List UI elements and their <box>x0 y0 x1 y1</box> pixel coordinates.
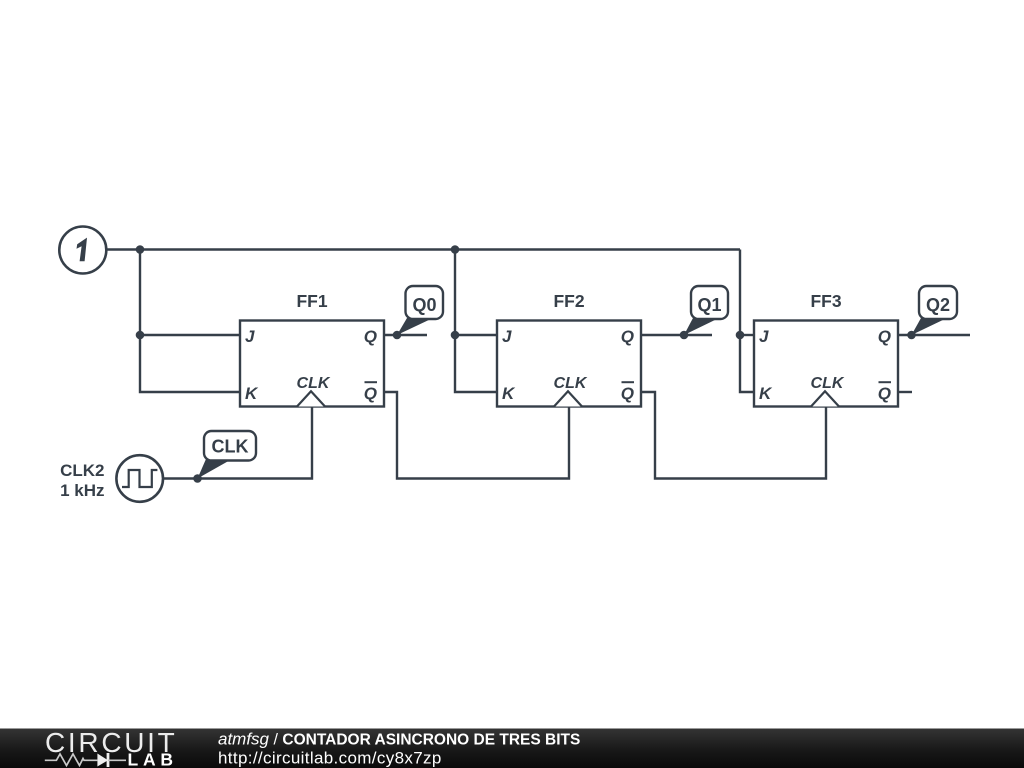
wire: FF3 J wire <box>740 334 754 336</box>
junction: CLK flag attach <box>193 474 202 483</box>
svg-text:K: K <box>502 384 516 403</box>
node flag Q0 <box>397 286 443 335</box>
wire: FF2 Qbar to FF3 CLK <box>641 392 826 479</box>
wire: FF2 feed vertical and K wire <box>455 250 497 393</box>
svg-text:CLK: CLK <box>212 437 249 457</box>
svg-text:J: J <box>502 327 512 346</box>
svg-text:Q: Q <box>878 384 891 403</box>
FF3 clock edge triangle <box>811 391 839 406</box>
svg-text:Q1: Q1 <box>697 295 721 315</box>
svg-text:Q: Q <box>878 327 891 346</box>
wire: FF1 Qbar to FF2 CLK <box>384 392 569 479</box>
node flag Q1 <box>684 286 728 335</box>
svg-text:LAB: LAB <box>128 750 178 768</box>
junction: top rail to FF2 feed <box>451 245 460 254</box>
svg-text:FF2: FF2 <box>553 291 584 311</box>
wire: FF3 Q output <box>898 334 970 336</box>
svg-text:K: K <box>759 384 773 403</box>
JK flip-flop FF2 <box>497 291 641 407</box>
junction: Q1 flag attach <box>680 331 689 340</box>
wire: top rail from V1 to FF3 feed <box>106 248 740 250</box>
svg-text:CLK2: CLK2 <box>60 461 104 480</box>
svg-text:Q: Q <box>364 384 377 403</box>
JK flip-flop FF1 <box>240 291 384 407</box>
JK flip-flop FF3 <box>754 291 898 407</box>
wire: FF3 feed vertical and K wire <box>740 250 754 393</box>
junction: Q0 flag attach <box>393 331 402 340</box>
svg-text:CLK: CLK <box>554 375 588 392</box>
svg-text:FF3: FF3 <box>810 291 841 311</box>
node flag CLK <box>198 431 257 479</box>
footer bar <box>0 729 1024 768</box>
svg-text:CLK: CLK <box>297 375 331 392</box>
wire: FF2 J wire <box>455 334 497 336</box>
junction: Q2 flag attach <box>907 331 916 340</box>
svg-text:K: K <box>245 384 259 403</box>
wire: CLK2 source to FF1 CLK <box>163 407 312 479</box>
junction: top rail to FF1 feed <box>136 245 145 254</box>
svg-text:1 kHz: 1 kHz <box>60 481 104 500</box>
svg-text:FF1: FF1 <box>296 291 327 311</box>
clock source CLK2 <box>60 455 163 502</box>
junction: FF2 J pin <box>451 331 460 340</box>
svg-text:Q0: Q0 <box>412 295 436 315</box>
wire: FF1 feed vertical and K wire <box>140 250 240 393</box>
svg-text:http://circuitlab.com/cy8x7zp: http://circuitlab.com/cy8x7zp <box>218 749 442 768</box>
svg-text:CLK: CLK <box>811 375 845 392</box>
svg-text:J: J <box>759 327 769 346</box>
wire: FF1 Q output <box>384 334 427 336</box>
node flag Q2 <box>912 286 958 335</box>
svg-text:Q: Q <box>364 327 377 346</box>
wire: FF1 J wire <box>140 334 240 336</box>
junction: FF1 J pin <box>136 331 145 340</box>
svg-text:Q: Q <box>621 327 634 346</box>
FF1 clock edge triangle <box>297 391 325 406</box>
CLK2 square wave symbol <box>122 470 157 487</box>
svg-text:J: J <box>245 327 255 346</box>
svg-text:Q: Q <box>621 384 634 403</box>
CircuitLab logo resistor-diode symbol <box>45 753 126 767</box>
wire: FF3 Qbar stub <box>898 391 912 393</box>
svg-text:atmfsg / CONTADOR ASINCRONO DE: atmfsg / CONTADOR ASINCRONO DE TRES BITS <box>218 730 580 749</box>
wire: FF2 Q output <box>641 334 712 336</box>
junction: FF3 J pin <box>736 331 745 340</box>
svg-text:Q2: Q2 <box>926 295 950 315</box>
logic HIGH source V1 "1" <box>59 227 106 274</box>
FF2 clock edge triangle <box>554 391 582 406</box>
